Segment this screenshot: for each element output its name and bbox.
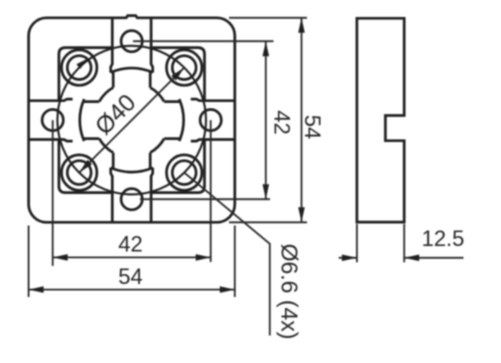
clover stub W-top (83, 100, 99, 103)
inner square segment BR (151, 140, 204, 193)
hole TR outer (167, 50, 202, 85)
arrow 12.5 left (342, 255, 357, 262)
clover corner arc BR (150, 139, 164, 153)
ext line h54 right (234, 226, 236, 298)
hole TL outer (61, 50, 96, 85)
arrow 12.5 right (404, 255, 419, 262)
bore mouth arc W (80, 99, 84, 141)
svg-text:Ø6.6 (4x): Ø6.6 (4x) (276, 244, 302, 340)
arrow h42 left (53, 254, 68, 261)
slot S walls (111, 168, 113, 223)
small hole E (200, 110, 221, 131)
ext line v42 top (133, 40, 274, 42)
arrow dia40 upper (171, 68, 184, 81)
ext line 12.5 right (403, 224, 405, 262)
ext line 12.5 left (356, 224, 358, 262)
hole BL outer (61, 155, 96, 190)
small hole W (42, 110, 63, 131)
leader dia6.6 (184, 173, 270, 336)
slot W walls (29, 99, 73, 101)
small hole N (121, 31, 142, 52)
dim line h42 (53, 256, 211, 258)
clover stub N-right (149, 72, 152, 88)
arrow v54 up (298, 18, 305, 33)
arrow on bolt circle at hole TL (76, 58, 88, 69)
bolt circle dia 40 (57, 46, 206, 195)
ext line h42 right (210, 120, 212, 262)
svg-text:12.5: 12.5 (422, 226, 465, 251)
side view profile (357, 18, 404, 222)
hole BL inner (67, 161, 91, 185)
inner square segment BL (59, 140, 112, 193)
bore mouth arc S (111, 168, 153, 172)
clover stub S-right (149, 153, 152, 169)
svg-text:54: 54 (118, 264, 142, 289)
ext line v54 bottom (229, 221, 307, 223)
arrow dia40 lower (79, 160, 92, 173)
dim line 12.5 right tail (404, 257, 463, 259)
clover corner arc BL (99, 139, 113, 153)
clover stub E-bottom (164, 137, 180, 140)
inner square segment TR (151, 48, 204, 101)
plate outline (front view, 54x54 with slot tabs) (29, 16, 235, 223)
dim line dia40 (79, 68, 184, 173)
bore mouth arc E (179, 99, 183, 141)
clover stub N-left (112, 72, 115, 88)
hole TR inner (172, 56, 196, 80)
svg-text:42: 42 (118, 232, 142, 257)
small hole S (121, 189, 142, 210)
ext line h54 left (28, 226, 30, 298)
arrow v54 down (298, 207, 305, 222)
hole TL inner (67, 56, 91, 80)
hole BR outer (167, 155, 202, 190)
arrow h54 left (29, 286, 44, 293)
clover stub W-bottom (83, 137, 99, 140)
dim line v42 (265, 41, 267, 199)
arrow v42 up (263, 41, 270, 56)
svg-text:42: 42 (269, 110, 294, 134)
slot N walls (111, 18, 113, 73)
clover corner arc TR (150, 88, 164, 102)
clover stub S-left (112, 153, 115, 169)
dim line v54 (301, 18, 303, 223)
hole BR inner (172, 161, 196, 185)
clover corner arc TL (99, 88, 113, 102)
inner square segment TL (59, 48, 112, 101)
svg-text:54: 54 (300, 115, 325, 139)
arrow v42 down (263, 184, 270, 199)
clover stub E-top (164, 100, 180, 103)
bore mouth arc N (111, 68, 153, 72)
ext line v42 bottom (140, 198, 270, 200)
ext line h42 left (52, 120, 54, 266)
dim line h54 (29, 289, 235, 291)
arrow h42 right (196, 254, 211, 261)
dim line 12.5 left tail (339, 257, 357, 259)
slot E walls (191, 99, 235, 101)
ext line v54 top (229, 17, 307, 19)
arrow h54 right (220, 286, 235, 293)
svg-text:Ø40: Ø40 (90, 89, 141, 140)
